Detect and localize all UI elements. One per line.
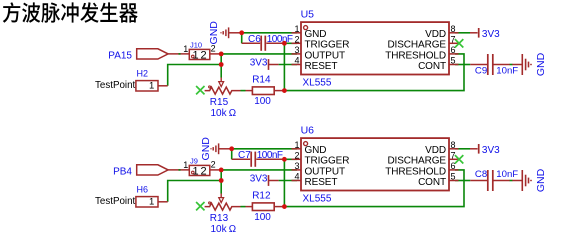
net flag PB4: [137, 165, 168, 175]
connector J10 pin1 circle marker: [192, 55, 195, 58]
junction OUTPUT node / J10 pin2: [219, 52, 224, 57]
wire U6 CONT pin5 to capacitor C8: [455, 180, 470, 182]
testpoint H2 body: [136, 81, 158, 91]
svg-text:GND: GND: [535, 168, 547, 192]
testpoint H2 stub: [158, 85, 168, 87]
junction TRIGGER node / C7: [282, 157, 287, 162]
U6 pin 6 (THRESHOLD) stub: [449, 169, 459, 171]
wire U5 CONT pin5 to capacitor C9: [455, 64, 470, 66]
potentiometer R13 pin-end dot: [209, 202, 211, 204]
junction R12 / THRESHOLD bus: [282, 204, 287, 209]
svg-text:2: 2: [294, 34, 299, 44]
testpoint H6 body: [136, 197, 158, 207]
ground symbol at C6 / U5 pin1: [221, 27, 229, 38]
svg-text:10k Ω: 10k Ω: [211, 224, 237, 235]
junction R14 / THRESHOLD bus: [282, 88, 287, 93]
svg-text:TestPoint: TestPoint: [95, 196, 136, 207]
U6 pin 3 (OUTPUT) stub: [292, 169, 302, 171]
wire GND node down to capacitor C6: [241, 33, 243, 44]
wire GND node to U6 pin1 GND: [232, 148, 297, 150]
U6 pin 2 (TRIGGER) stub: [292, 158, 302, 160]
svg-text:GND: GND: [200, 137, 212, 161]
svg-text:8: 8: [451, 140, 456, 150]
svg-text:1: 1: [183, 160, 188, 170]
wire node down to potentiometer R13 wiper: [220, 181, 222, 194]
resistor R12 body: [252, 203, 274, 211]
U6 pin 5 (CONT) stub: [449, 180, 459, 182]
wire bus from R14 node along bottom and up to U5 THRESHOLD pin6: [284, 54, 464, 91]
svg-text:1: 1: [193, 165, 199, 177]
svg-text:6: 6: [451, 161, 456, 171]
svg-text:6: 6: [451, 45, 456, 55]
U6 pin 4 (RESET) stub: [292, 180, 302, 182]
svg-text:H6: H6: [137, 184, 149, 194]
wire capacitor C6 to U5 TRIGGER pin2: [282, 42, 297, 44]
U5 pin 8 (VDD) stub: [449, 32, 459, 34]
ground symbol at C9: [522, 54, 531, 75]
ground symbol lead: [229, 32, 242, 34]
wire node down to potentiometer R15 wiper: [220, 65, 222, 78]
connector J10 pin 2 stub to node: [210, 53, 220, 55]
svg-text:10k Ω: 10k Ω: [211, 108, 237, 119]
U5 pin 6 (THRESHOLD) stub: [449, 53, 459, 55]
potentiometer R15 wiper arrow: [220, 78, 222, 82]
svg-text:CONT: CONT: [418, 61, 446, 72]
resistor R14 body: [252, 87, 274, 95]
svg-text:H2: H2: [137, 68, 149, 78]
svg-text:R14: R14: [252, 75, 271, 86]
capacitor C6 100nF leads: [242, 42, 261, 44]
svg-text:C6: C6: [248, 34, 261, 45]
U5 pin 3 (OUTPUT) stub: [292, 53, 302, 55]
timer IC U6 XL555 body: [301, 138, 449, 190]
resistor R14 leads: [246, 90, 253, 92]
svg-text:TestPoint: TestPoint: [95, 80, 136, 91]
wire 3V3 to U6 RESET pin4: [279, 180, 297, 182]
capacitor C7 100nF leads: [232, 158, 251, 160]
potentiometer R15 pin-end dot: [209, 86, 211, 88]
svg-text:2: 2: [201, 49, 207, 61]
svg-text:U5: U5: [301, 8, 315, 20]
svg-text:RESET: RESET: [305, 177, 338, 188]
connector J9 pin1 circle marker: [192, 171, 195, 174]
svg-text:5: 5: [451, 172, 456, 182]
U6 pin 1 (GND) stub: [292, 148, 302, 150]
capacitor C9 10nF leads: [470, 64, 487, 66]
junction GND node / C7: [229, 146, 234, 151]
junction GND node / C6: [239, 30, 244, 35]
wire U6 VDD pin8 to 3V3: [455, 148, 470, 150]
net flag PA15: [137, 49, 168, 59]
testpoint H6 stub: [158, 201, 168, 203]
power flag 3V3 at U5 VDD pin8: [470, 32, 478, 34]
power flag 3V3 at U6 VDD pin8: [470, 148, 478, 150]
wire R13 to R12: [241, 206, 246, 208]
ground symbol at C7 / U6 pin1: [211, 143, 219, 154]
wire GND node down to capacitor C7: [231, 149, 233, 160]
potentiometer R13 wiper arrow: [220, 194, 222, 198]
wire connector J9 pin2 to U6 OUTPUT pin3 (node OUT): [220, 169, 298, 171]
svg-text:VDD: VDD: [425, 145, 446, 156]
svg-text:GND: GND: [305, 29, 327, 40]
U6 pin1 dot marker: [304, 142, 308, 146]
U5 pin 2 (TRIGGER) stub: [292, 42, 302, 44]
U5 pin 1 (GND) stub: [292, 32, 302, 34]
svg-text:DISCHARGE: DISCHARGE: [387, 40, 446, 51]
svg-text:GND: GND: [208, 21, 220, 45]
net flag PA15 lead to J10: [168, 53, 189, 55]
connector J10 body: [189, 49, 210, 59]
connector J9 pin 2 stub to node: [210, 169, 220, 171]
wire capacitor C7 to U6 TRIGGER pin2: [282, 158, 297, 160]
svg-text:GND: GND: [305, 145, 327, 156]
ground symbol lead: [219, 148, 232, 150]
wire bus from R12 node along bottom and up to U6 THRESHOLD pin6: [284, 170, 464, 207]
svg-text:1: 1: [193, 49, 199, 61]
wire R15 to R14: [241, 90, 246, 92]
svg-text:8: 8: [451, 24, 456, 34]
3V3 lead to RESET wire: [269, 180, 279, 182]
wire capacitor C8 to GND (exposed segment): [510, 180, 513, 182]
title 方波脉冲发生器 (square wave pulse generator): [3, 2, 138, 23]
capacitor C9 plates: [487, 54, 489, 75]
U5 pin1 dot marker: [304, 26, 308, 30]
capacitor C8 10nF leads: [470, 180, 487, 182]
svg-text:CONT: CONT: [418, 177, 446, 188]
svg-text:DISCHARGE: DISCHARGE: [387, 156, 446, 167]
svg-text:3: 3: [294, 161, 299, 171]
junction TRIGGER node / C6: [282, 41, 287, 46]
potentiometer R13 10k zigzag body: [205, 203, 241, 210]
svg-text:J10: J10: [190, 41, 202, 50]
svg-text:XL555: XL555: [303, 194, 332, 205]
svg-text:VDD: VDD: [425, 29, 446, 40]
svg-text:PB4: PB4: [113, 166, 132, 177]
svg-text:3V3: 3V3: [250, 58, 268, 69]
junction testpoint H6 / wiper node: [219, 178, 224, 183]
svg-text:XL555: XL555: [303, 78, 332, 89]
svg-text:THRESHOLD: THRESHOLD: [385, 166, 446, 177]
svg-text:U6: U6: [301, 124, 315, 136]
potentiometer R15 10k zigzag body: [205, 87, 241, 94]
svg-text:1: 1: [149, 80, 154, 91]
svg-text:10nF: 10nF: [496, 66, 518, 77]
svg-text:R15: R15: [210, 97, 229, 108]
svg-text:1: 1: [294, 140, 299, 150]
wire node OUT down to testpoint node: [220, 170, 222, 181]
wire TRIGGER node down to R12 node: [283, 159, 285, 206]
no-connect X on U6 pin 7 DISCHARGE: [455, 155, 463, 163]
3V3 lead to RESET wire: [269, 64, 279, 66]
wire connector J10 pin2 to U5 OUTPUT pin3 (node OUT): [220, 53, 298, 55]
U5 pin 4 (RESET) stub: [292, 64, 302, 66]
junction OUTPUT node / J9 pin2: [219, 168, 224, 173]
resistor R12 leads: [246, 206, 253, 208]
svg-text:100: 100: [254, 212, 271, 223]
U6 pin 8 (VDD) stub: [449, 148, 459, 150]
svg-text:5: 5: [451, 56, 456, 66]
svg-text:1: 1: [183, 44, 188, 54]
svg-text:TRIGGER: TRIGGER: [305, 156, 350, 167]
svg-text:3V3: 3V3: [482, 29, 500, 40]
svg-text:OUTPUT: OUTPUT: [305, 50, 346, 61]
wire testpoint H6 up and right to node: [168, 181, 222, 202]
svg-text:1: 1: [149, 196, 154, 207]
svg-text:C9: C9: [475, 66, 487, 77]
svg-text:PA15: PA15: [108, 50, 132, 61]
svg-text:100nF: 100nF: [257, 150, 283, 161]
wire capacitor C9 to GND (exposed segment): [510, 64, 513, 66]
svg-text:3: 3: [294, 45, 299, 55]
svg-text:TRIGGER: TRIGGER: [305, 40, 350, 51]
U6 pin 7 (DISCHARGE) stub: [449, 158, 459, 160]
capacitor C6 plates: [260, 36, 262, 51]
capacitor C8 plates: [487, 170, 489, 191]
svg-text:OUTPUT: OUTPUT: [305, 166, 346, 177]
svg-text:C7: C7: [238, 150, 251, 161]
svg-text:J9: J9: [190, 157, 198, 166]
wire U5 VDD pin8 to 3V3: [455, 32, 470, 34]
svg-text:1: 1: [294, 24, 299, 34]
net flag PB4 lead to J9: [168, 169, 189, 171]
junction testpoint H2 / wiper node: [219, 62, 224, 67]
svg-text:100: 100: [254, 96, 271, 107]
no-connect X on R15 pin 1: [196, 86, 204, 94]
no-connect X on R13 pin 1: [196, 202, 204, 210]
svg-text:4: 4: [294, 56, 299, 66]
wire node OUT down to testpoint node: [220, 54, 222, 65]
svg-text:C8: C8: [475, 169, 487, 180]
power flag 3V3 at U5 RESET: [268, 59, 270, 70]
wire GND node to U5 pin1 GND: [242, 32, 297, 34]
timer IC U5 XL555 body: [301, 22, 449, 74]
svg-text:4: 4: [294, 172, 299, 182]
no-connect X on U5 pin 7 DISCHARGE: [455, 39, 463, 47]
svg-text:GND: GND: [535, 52, 547, 76]
svg-text:R13: R13: [210, 213, 229, 224]
U5 pin 5 (CONT) stub: [449, 64, 459, 66]
svg-text:RESET: RESET: [305, 61, 338, 72]
svg-text:100nF: 100nF: [267, 34, 293, 45]
svg-text:10nF: 10nF: [496, 169, 518, 180]
wire 3V3 to U5 RESET pin4: [279, 64, 297, 66]
connector J9 body: [189, 165, 210, 175]
svg-text:THRESHOLD: THRESHOLD: [385, 50, 446, 61]
ground symbol at C8: [522, 170, 531, 191]
U5 pin 7 (DISCHARGE) stub: [449, 42, 459, 44]
wire testpoint H2 up and right to node: [168, 65, 222, 86]
power flag 3V3 at U6 RESET: [268, 175, 270, 186]
svg-text:3V3: 3V3: [250, 174, 268, 185]
capacitor C7 plates: [250, 152, 252, 167]
wire TRIGGER node down to R14 node: [283, 43, 285, 90]
svg-text:2: 2: [201, 165, 207, 177]
svg-text:3V3: 3V3: [482, 145, 500, 156]
svg-text:R12: R12: [252, 191, 271, 202]
svg-text:2: 2: [294, 150, 299, 160]
